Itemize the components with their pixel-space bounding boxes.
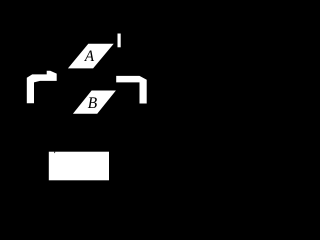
bottom rectangle xyxy=(49,152,109,181)
left bracket xyxy=(27,71,57,103)
tick mark xyxy=(118,34,121,48)
notch in rectangle top edge xyxy=(54,152,55,154)
plane A (parallelogram) xyxy=(68,44,114,69)
label B xyxy=(88,97,97,108)
plane B (parallelogram) xyxy=(73,91,116,114)
label A xyxy=(84,50,94,61)
right bracket xyxy=(116,76,147,104)
